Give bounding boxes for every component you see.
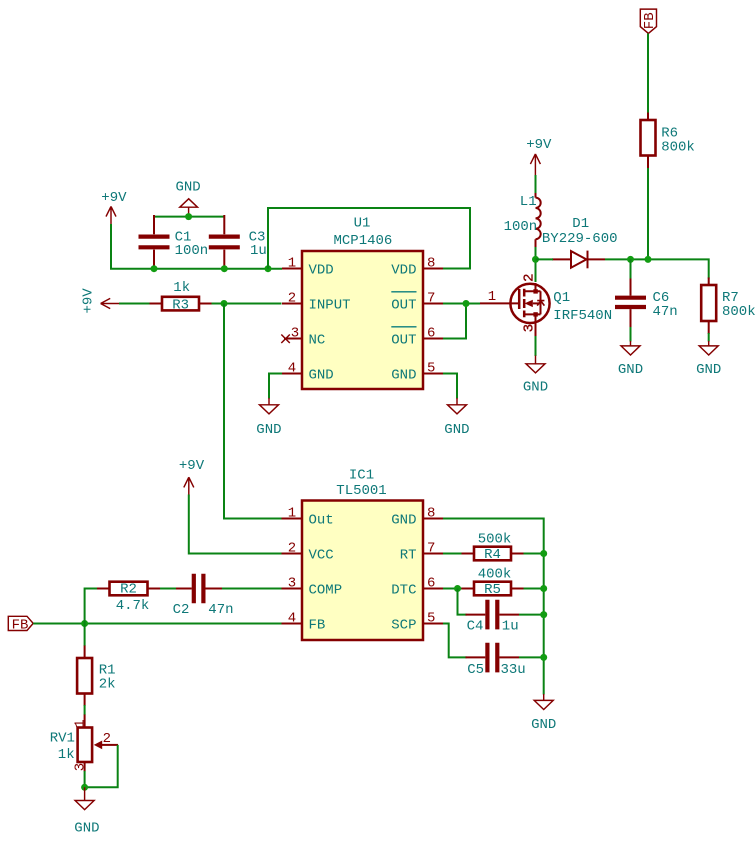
capacitor C2 [173, 574, 234, 618]
svg-text:800k: 800k [722, 304, 756, 320]
wire pin7 to Q1 gate [443, 303, 480, 305]
wire R4 to bus [524, 553, 544, 555]
op-amp U1 MCP1406 body [302, 215, 423, 389]
svg-text:2: 2 [522, 273, 538, 281]
capacitor C3 [209, 215, 267, 269]
pin 8 GND [391, 506, 443, 529]
wire FB to IC1 pin 4 [33, 623, 281, 625]
svg-text:100n: 100n [504, 219, 538, 235]
svg-text:GND: GND [391, 512, 416, 528]
svg-text:IRF540N: IRF540N [553, 308, 612, 324]
svg-text:R3: R3 [172, 297, 189, 313]
svg-text:C5: C5 [467, 662, 484, 678]
wire +9V to R3 [119, 303, 150, 305]
junction OUT net [463, 300, 470, 307]
ground (C6) [618, 341, 643, 378]
svg-text:3: 3 [73, 763, 89, 771]
wire pin6 up to pin7 net [443, 304, 466, 339]
svg-text:7: 7 [427, 541, 435, 557]
svg-text:7: 7 [427, 291, 435, 307]
global label FB (left) [8, 616, 33, 633]
svg-text:3: 3 [288, 576, 296, 592]
wire FB node up to R2 row [85, 589, 97, 624]
svg-text:3: 3 [522, 324, 538, 332]
svg-text:FB: FB [642, 12, 658, 29]
ground (Q1 source) [523, 356, 548, 396]
wire R1 to RV1 [84, 705, 86, 715]
wire C4 to bus [519, 614, 544, 616]
svg-text:C2: C2 [173, 602, 190, 618]
wire Q1 source to GND [535, 336, 537, 356]
svg-text:FB: FB [309, 617, 326, 633]
junction FB node [81, 620, 88, 627]
svg-text:GND: GND [618, 362, 643, 378]
svg-text:GND: GND [696, 362, 721, 378]
ground (U1 pin4) [256, 398, 281, 438]
svg-text:VCC: VCC [309, 547, 334, 563]
svg-text:2: 2 [288, 291, 296, 307]
svg-text:D1: D1 [572, 216, 589, 232]
wire R2 to C2 [160, 588, 177, 590]
svg-text:GND: GND [531, 717, 556, 733]
wire +9V to VCC pin 2 [189, 495, 282, 554]
svg-text:4.7k: 4.7k [116, 598, 150, 614]
svg-text:Out: Out [309, 512, 334, 528]
svg-text:500k: 500k [478, 532, 512, 548]
resistor R5 [462, 567, 524, 599]
junction top GND rail [185, 213, 192, 220]
power +9V (left, pointing left at R3) [81, 288, 121, 314]
svg-text:1u: 1u [502, 618, 519, 634]
svg-text:R5: R5 [484, 582, 501, 598]
wire FB to R6 [647, 34, 649, 113]
svg-text:GND: GND [176, 180, 201, 196]
svg-text:R2: R2 [120, 581, 137, 597]
resistor R4 [462, 532, 524, 564]
pin 7 RT [400, 541, 443, 564]
wire R7 to GND [708, 333, 710, 342]
wire RV1 wiper loop to bottom node [85, 745, 118, 787]
svg-text:U1: U1 [354, 215, 371, 231]
svg-text:Q1: Q1 [553, 290, 570, 306]
pin 5 GND [391, 361, 443, 384]
svg-text:SCP: SCP [391, 617, 416, 633]
wire pin7 to R4 [443, 553, 462, 555]
svg-text:+9V: +9V [179, 458, 205, 474]
pin 5 SCP [391, 611, 443, 634]
svg-text:8: 8 [427, 256, 435, 272]
resistor R7 [701, 278, 755, 335]
svg-text:3: 3 [291, 326, 299, 342]
svg-text:GND: GND [391, 367, 416, 383]
svg-text:2k: 2k [99, 676, 116, 692]
pin 8 VDD [391, 256, 443, 279]
wire R5 to bus [524, 588, 544, 590]
inductor L1 [504, 193, 541, 247]
svg-text:100n: 100n [175, 243, 209, 259]
junction L1 / D1 / drain [532, 256, 539, 263]
svg-text:1: 1 [288, 506, 296, 522]
svg-text:L1: L1 [520, 194, 537, 210]
svg-text:FB: FB [12, 618, 29, 634]
power +9V (top left) [101, 190, 127, 225]
svg-text:400k: 400k [478, 567, 512, 583]
op-amp IC1 TL5001 body [302, 467, 423, 640]
svg-text:1k: 1k [58, 747, 75, 763]
wire D1 to C6/R6/R7 rail [605, 259, 709, 278]
svg-text:TL5001: TL5001 [336, 483, 386, 499]
wire DTC branch down to C4 [458, 589, 467, 615]
junction C5/bus [540, 654, 547, 661]
svg-text:VDD: VDD [391, 262, 416, 278]
resistor R6 [641, 113, 695, 169]
svg-text:IC1: IC1 [349, 467, 374, 483]
junction rail / pin8 riser [265, 265, 272, 272]
resistor R1 [77, 646, 115, 707]
svg-text:6: 6 [427, 576, 435, 592]
wire R3 to U1 pin 2 [212, 303, 282, 305]
power +9V (at IC1 VCC) [179, 458, 205, 496]
pin 7 OUT (inverted) [391, 291, 443, 314]
svg-text:+9V: +9V [526, 137, 552, 153]
capacitor C1 [139, 215, 209, 269]
svg-text:GND: GND [309, 367, 334, 383]
pin 4 FB [282, 611, 326, 634]
svg-text:2: 2 [288, 541, 296, 557]
svg-text:C4: C4 [467, 618, 484, 634]
svg-text:8: 8 [427, 506, 435, 522]
svg-text:RV1: RV1 [50, 730, 75, 746]
junction R4/bus [540, 550, 547, 557]
svg-text:COMP: COMP [309, 582, 343, 598]
wire RV1 pin3 down [84, 771, 86, 787]
svg-text:2: 2 [103, 731, 111, 747]
svg-text:+9V: +9V [101, 190, 127, 206]
junction R6 tap [645, 256, 652, 263]
junction DTC / C4 branch [454, 585, 461, 592]
junction C1 bottom [151, 265, 158, 272]
global label FB (top) [640, 9, 658, 33]
svg-text:1: 1 [288, 256, 296, 272]
potentiometer RV1 [50, 715, 118, 772]
ground (RV1) [74, 787, 99, 836]
pin 2 VCC [282, 541, 334, 564]
wire top cap rail [154, 216, 224, 218]
svg-text:R4: R4 [484, 547, 501, 563]
svg-text:GND: GND [256, 422, 281, 438]
svg-text:GND: GND [523, 380, 548, 396]
pin 1 Out [282, 506, 334, 529]
wire C6 to GND [630, 327, 632, 342]
power +9V (above L1) [526, 137, 552, 176]
transistor Q1 IRF540N [480, 273, 612, 336]
diode D1 BY229-600 [536, 216, 618, 268]
svg-text:1u: 1u [250, 243, 267, 259]
ground (IC1 bus) [531, 694, 556, 733]
junction C4/bus [540, 611, 547, 618]
capacitor C5 [466, 643, 526, 678]
pin 2 INPUT [282, 291, 351, 314]
svg-text:MCP1406: MCP1406 [334, 233, 393, 249]
ground (U1 pin5) [444, 398, 469, 438]
svg-text:1: 1 [73, 719, 89, 727]
svg-text:47n: 47n [208, 602, 233, 618]
svg-text:47n: 47n [653, 304, 678, 320]
wire C2 to IC1 pin 3 [222, 588, 282, 590]
wire C5 to bus [519, 656, 544, 658]
capacitor C4 [466, 600, 520, 635]
pin 3 NC with no-connect cross [281, 326, 325, 349]
svg-text:+9V: +9V [81, 288, 97, 314]
resistor R2 [97, 581, 160, 614]
wire L1 junction to D1 [536, 258, 554, 260]
wire +9V down and rail to U1 pin 1 [111, 224, 282, 269]
junction C3 bottom [221, 265, 228, 272]
svg-text:GND: GND [444, 422, 469, 438]
wire pin6 to R5 [443, 588, 462, 590]
svg-text:DTC: DTC [391, 582, 416, 598]
svg-text:OUT: OUT [391, 332, 416, 348]
capacitor C6 [615, 279, 678, 329]
wire pin5 down to C5 [443, 624, 467, 658]
wire pin8 to ground bus [443, 519, 544, 695]
svg-text:5: 5 [427, 611, 435, 627]
wire R6 to rail [647, 168, 649, 259]
svg-text:1k: 1k [173, 280, 190, 296]
svg-text:6: 6 [427, 326, 435, 342]
svg-text:800k: 800k [661, 140, 695, 156]
svg-text:33u: 33u [501, 662, 526, 678]
junction R3 / IC1 branch [221, 300, 228, 307]
resistor R3 [150, 280, 212, 313]
pin 4 GND [282, 361, 334, 384]
svg-text:5: 5 [427, 361, 435, 377]
svg-text:RT: RT [400, 547, 417, 563]
pin 6 DTC [391, 576, 443, 599]
wire L1 to rail and Q1 drain [535, 247, 537, 282]
wire pin5 to GND [443, 374, 457, 399]
pin 3 COMP [282, 576, 343, 599]
wire rail to C6 [630, 259, 632, 279]
wire OUT net down to IC1 pin 1 [224, 304, 282, 519]
pin 6 OUT (inverted) [391, 326, 443, 349]
wire +9V to L1 [535, 175, 537, 193]
svg-text:VDD: VDD [309, 262, 334, 278]
pin 1 VDD [282, 256, 334, 279]
junction R5/bus [540, 585, 547, 592]
power GND (inverted, above C1/C3) [176, 180, 201, 217]
svg-text:4: 4 [288, 611, 296, 627]
wire pin4 to GND [269, 374, 282, 399]
svg-text:4: 4 [288, 361, 296, 377]
svg-text:INPUT: INPUT [309, 297, 351, 313]
wire FB node down to R1 [84, 624, 86, 647]
svg-text:BY229-600: BY229-600 [542, 231, 618, 247]
junction C6 tap [627, 256, 634, 263]
wire pin8 loop to top rail [268, 208, 470, 269]
svg-text:1: 1 [488, 289, 496, 305]
svg-text:NC: NC [309, 332, 326, 348]
svg-text:OUT: OUT [391, 297, 416, 313]
svg-text:GND: GND [74, 820, 99, 836]
ground (R7) [696, 341, 721, 378]
junction RV1 bottom [81, 784, 88, 791]
